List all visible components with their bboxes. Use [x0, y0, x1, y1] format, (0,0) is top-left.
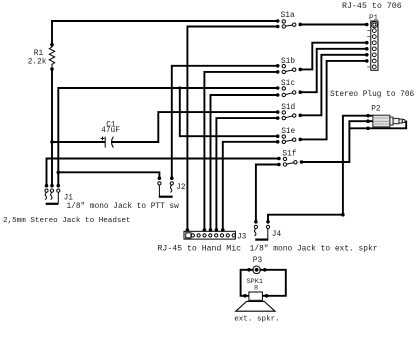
- svg-text:S1c: S1c: [281, 80, 295, 88]
- P1 pin6 wire dot: [365, 53, 369, 57]
- resistor R1: [49, 45, 54, 69]
- svg-text:2,5mm Stereo Jack to Headset: 2,5mm Stereo Jack to Headset: [3, 217, 131, 225]
- svg-text:8: 8: [254, 285, 258, 293]
- svg-text:RJ-45 to 706: RJ-45 to 706: [342, 2, 402, 11]
- wire P2 sleeve under-body to tip end: [349, 122, 406, 129]
- jack J2 1/8 mono to PTT: [158, 176, 174, 196]
- connector P1 RJ-45 to 706: [371, 21, 378, 70]
- plug P2 stereo to 706: [373, 115, 405, 127]
- svg-text:Stereo Plug to 706: Stereo Plug to 706: [330, 91, 415, 99]
- svg-text:J4: J4: [272, 231, 282, 239]
- switch S1b: [276, 64, 302, 74]
- svg-text:P2: P2: [371, 105, 381, 113]
- wire S1a-bottom to J3 pin1: [187, 27, 277, 230]
- P1 pin4 wire dot: [365, 41, 369, 45]
- wire S1a-top to R1-top: [52, 21, 278, 45]
- wire P3 left to speaker: [241, 270, 253, 296]
- wire S1a-out to P1 pin1: [300, 24, 367, 26]
- svg-text:2.2k: 2.2k: [28, 58, 47, 66]
- wire S1b-bottom to J3 pin4: [204, 72, 277, 230]
- speaker cone: [236, 301, 275, 311]
- wire S1e-top drop from S1c-top line: [180, 88, 278, 136]
- wire J1-tip up to S1c-top: [58, 88, 277, 186]
- junction R1 bottom: [50, 67, 54, 71]
- wire R1-bottom to J1-ring: [51, 69, 53, 186]
- wire P3 right to speaker: [260, 270, 285, 296]
- wire S1b-out to P1 pin4: [300, 43, 367, 70]
- jack J4 1/8 mono to ext spkr: [254, 220, 270, 240]
- wire S1c-bottom to J3 pin5: [211, 95, 278, 230]
- J3 pin7 wire dot: [221, 228, 225, 232]
- P2 tip wire dot: [366, 114, 370, 118]
- svg-text:RJ-45 to Hand Mic: RJ-45 to Hand Mic: [158, 243, 242, 253]
- P1 pin3 stub: [367, 36, 371, 38]
- wire J1-sleeve to S1f-top: [47, 159, 279, 186]
- svg-text:P1: P1: [369, 15, 379, 23]
- wire branch to J2 left contact: [58, 172, 159, 178]
- J3 pin5 wire dot: [209, 228, 213, 232]
- wire S1c-out to P1 pin5: [300, 49, 367, 92]
- svg-text:S1a: S1a: [281, 12, 295, 20]
- P1 pin8 stub: [367, 66, 371, 68]
- switch S1d: [276, 110, 302, 120]
- junction C1 left tap: [50, 140, 54, 144]
- junction at P2-tip corner: [341, 213, 345, 217]
- svg-text:J3: J3: [237, 233, 247, 241]
- svg-text:S1b: S1b: [281, 58, 295, 66]
- svg-text:J1: J1: [64, 194, 74, 202]
- P2 sleeve wire dot: [366, 127, 370, 131]
- P1 pin2 stub: [367, 30, 371, 32]
- wire P2 tip to J4 right contact: [268, 116, 373, 222]
- svg-text:S1f: S1f: [282, 151, 296, 159]
- speaker SPK1 box: [243, 292, 268, 300]
- switch S1c: [276, 86, 302, 97]
- svg-text:P3: P3: [253, 257, 263, 265]
- P1 pin7 wire dot: [365, 59, 369, 63]
- wire C1-right to S1d-top: [113, 112, 278, 142]
- J3 pin4 wire dot: [203, 228, 207, 232]
- P1 pin5 wire dot: [365, 47, 369, 51]
- switch S1f: [277, 157, 303, 167]
- connector J3 RJ-45 to hand mic: [184, 231, 235, 239]
- wire S1e-bottom to J3 pin7: [223, 142, 278, 230]
- wire S1d-out to P1 pin6: [300, 55, 367, 116]
- plug P3: [247, 266, 266, 274]
- J3 pin1 wire dot: [186, 228, 190, 232]
- junction J2 branch: [57, 171, 61, 175]
- jack J1 2.5mm stereo to headset: [45, 184, 60, 204]
- wire S1f-bottom to J4 left contact: [256, 165, 279, 222]
- wire S1e-out to P1 pin7: [300, 61, 367, 139]
- switch S1e: [276, 134, 302, 143]
- J3 pin6 wire dot: [215, 228, 219, 232]
- svg-text:J2: J2: [176, 184, 186, 192]
- svg-text:R1: R1: [34, 50, 44, 58]
- capacitor C1: [101, 137, 114, 148]
- P1 pin1 wire dot: [365, 23, 369, 27]
- P2 ring wire dot: [366, 119, 370, 123]
- wire P2 ring stub to body: [368, 120, 373, 122]
- wire C1-left tap: [52, 141, 105, 143]
- svg-text:S1e: S1e: [281, 128, 295, 136]
- switch S1a: [276, 19, 302, 28]
- svg-text:S1d: S1d: [281, 104, 295, 112]
- wire S1f-out to P2 ring: [302, 121, 368, 162]
- svg-text:1/8" mono Jack to ext. spkr: 1/8" mono Jack to ext. spkr: [250, 244, 378, 253]
- wire S1b-top to J2 right contact: [172, 66, 278, 178]
- wire S1d-bottom to J3 pin6: [216, 118, 277, 230]
- junction S1e-top tap on S1c line: [178, 86, 181, 89]
- svg-text:ext. spkr.: ext. spkr.: [234, 316, 280, 324]
- svg-text:1/8" mono Jack to PTT sw: 1/8" mono Jack to PTT sw: [67, 203, 180, 211]
- junction R1 top: [50, 43, 54, 47]
- svg-text:47uF: 47uF: [101, 127, 120, 135]
